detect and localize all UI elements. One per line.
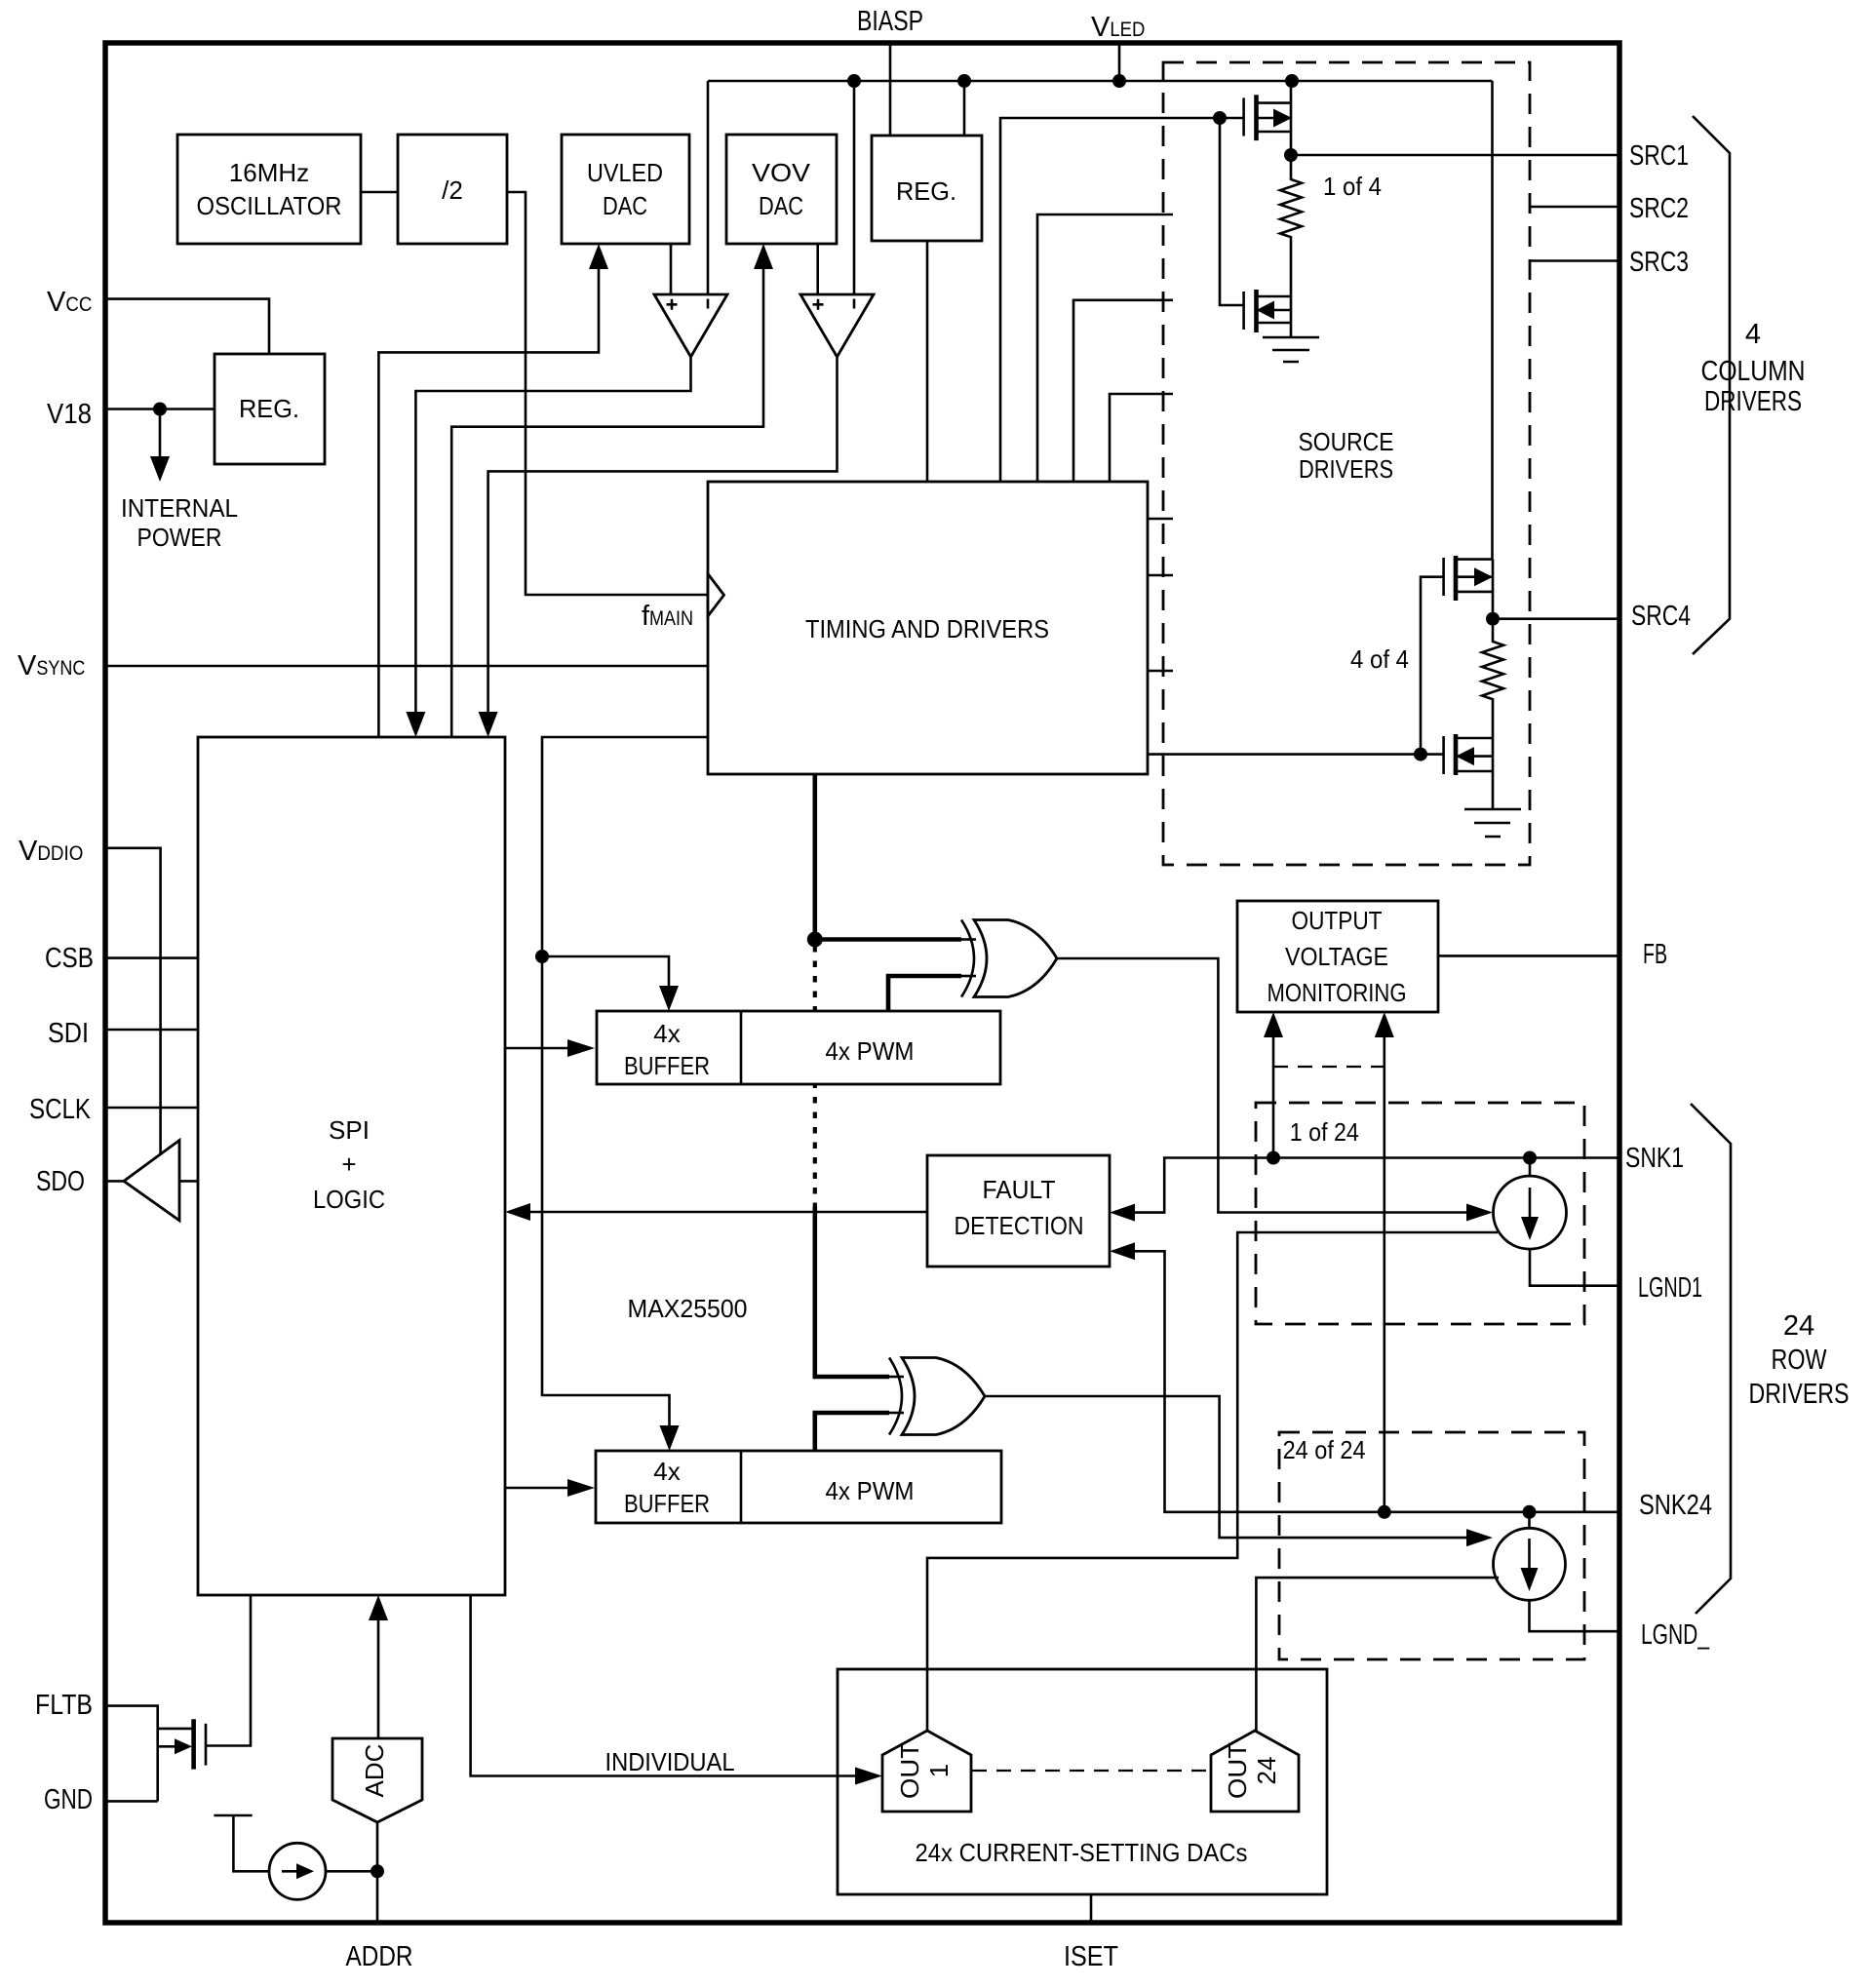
svg-text:SRC3: SRC3 xyxy=(1629,247,1689,278)
svg-text:INDIVIDUAL: INDIVIDUAL xyxy=(605,1747,735,1776)
svg-text:ISET: ISET xyxy=(1064,1941,1118,1972)
svg-text:UVLED: UVLED xyxy=(587,158,663,187)
svg-text:GND: GND xyxy=(44,1784,93,1815)
svg-text:SDO: SDO xyxy=(36,1166,85,1197)
svg-text:16MHz: 16MHz xyxy=(229,158,309,187)
svg-text:INTERNAL: INTERNAL xyxy=(121,493,238,523)
svg-text:DAC: DAC xyxy=(759,191,803,220)
svg-text:OUT: OUT xyxy=(895,1742,924,1799)
svg-text:OUTPUT: OUTPUT xyxy=(1292,906,1383,935)
svg-text:CSB: CSB xyxy=(45,943,94,974)
svg-text:FLTB: FLTB xyxy=(35,1690,93,1721)
svg-text:DRIVERS: DRIVERS xyxy=(1749,1379,1850,1410)
svg-text:ADC: ADC xyxy=(360,1744,389,1798)
svg-text:DRIVERS: DRIVERS xyxy=(1704,386,1802,417)
svg-text:OUT: OUT xyxy=(1223,1742,1252,1799)
svg-text:POWER: POWER xyxy=(137,523,222,552)
svg-text:SRC2: SRC2 xyxy=(1629,193,1689,224)
svg-text:SOURCE: SOURCE xyxy=(1299,427,1394,456)
svg-text:V18: V18 xyxy=(47,399,92,430)
svg-text:VOV: VOV xyxy=(752,158,811,187)
svg-text:REG.: REG. xyxy=(896,176,956,206)
svg-text:1: 1 xyxy=(924,1764,954,1777)
svg-text:4x: 4x xyxy=(653,1457,680,1486)
svg-text:1 of 4: 1 of 4 xyxy=(1323,172,1382,201)
svg-text:+: + xyxy=(341,1150,356,1179)
svg-text:LGND_: LGND_ xyxy=(1641,1619,1710,1651)
svg-text:24: 24 xyxy=(1252,1757,1281,1785)
svg-text:FB: FB xyxy=(1643,939,1667,970)
svg-text:COLUMN: COLUMN xyxy=(1701,356,1806,387)
svg-text:4x PWM: 4x PWM xyxy=(826,1476,915,1505)
svg-text:BIASP: BIASP xyxy=(857,6,923,37)
svg-text:SCLK: SCLK xyxy=(29,1094,92,1125)
svg-text:LGND1: LGND1 xyxy=(1638,1272,1702,1304)
svg-text:SRC1: SRC1 xyxy=(1629,140,1689,172)
svg-text:BUFFER: BUFFER xyxy=(624,1489,710,1518)
svg-text:24: 24 xyxy=(1783,1310,1814,1342)
svg-text:4: 4 xyxy=(1745,319,1761,350)
svg-text:SDI: SDI xyxy=(48,1018,89,1049)
svg-text:4 of 4: 4 of 4 xyxy=(1350,644,1409,674)
svg-text:4x PWM: 4x PWM xyxy=(826,1036,915,1066)
svg-text:REG.: REG. xyxy=(239,394,299,423)
svg-text:4x: 4x xyxy=(653,1019,680,1048)
svg-text:MONITORING: MONITORING xyxy=(1267,978,1407,1007)
svg-text:DAC: DAC xyxy=(603,191,647,220)
svg-text:BUFFER: BUFFER xyxy=(624,1051,710,1080)
svg-text:OSCILLATOR: OSCILLATOR xyxy=(197,191,342,220)
svg-text:SRC4: SRC4 xyxy=(1631,601,1691,632)
svg-text:ROW: ROW xyxy=(1772,1345,1828,1376)
svg-text:LOGIC: LOGIC xyxy=(313,1185,385,1214)
svg-text:TIMING AND DRIVERS: TIMING AND DRIVERS xyxy=(805,614,1049,643)
svg-text:SPI: SPI xyxy=(329,1115,370,1145)
svg-text:DETECTION: DETECTION xyxy=(955,1211,1084,1240)
svg-text:SNK1: SNK1 xyxy=(1625,1143,1684,1174)
svg-text:SNK24: SNK24 xyxy=(1639,1490,1712,1521)
svg-text:DRIVERS: DRIVERS xyxy=(1299,454,1393,484)
svg-text:24x CURRENT-SETTING DACs: 24x CURRENT-SETTING DACs xyxy=(916,1838,1248,1867)
svg-text:24 of 24: 24 of 24 xyxy=(1283,1435,1366,1464)
svg-text:FAULT: FAULT xyxy=(983,1175,1056,1204)
svg-text:VOLTAGE: VOLTAGE xyxy=(1285,942,1388,971)
svg-text:MAX25500: MAX25500 xyxy=(628,1294,748,1323)
svg-text:ADDR: ADDR xyxy=(346,1941,413,1972)
svg-text:1 of 24: 1 of 24 xyxy=(1290,1117,1359,1147)
svg-text:/2: /2 xyxy=(442,175,463,205)
